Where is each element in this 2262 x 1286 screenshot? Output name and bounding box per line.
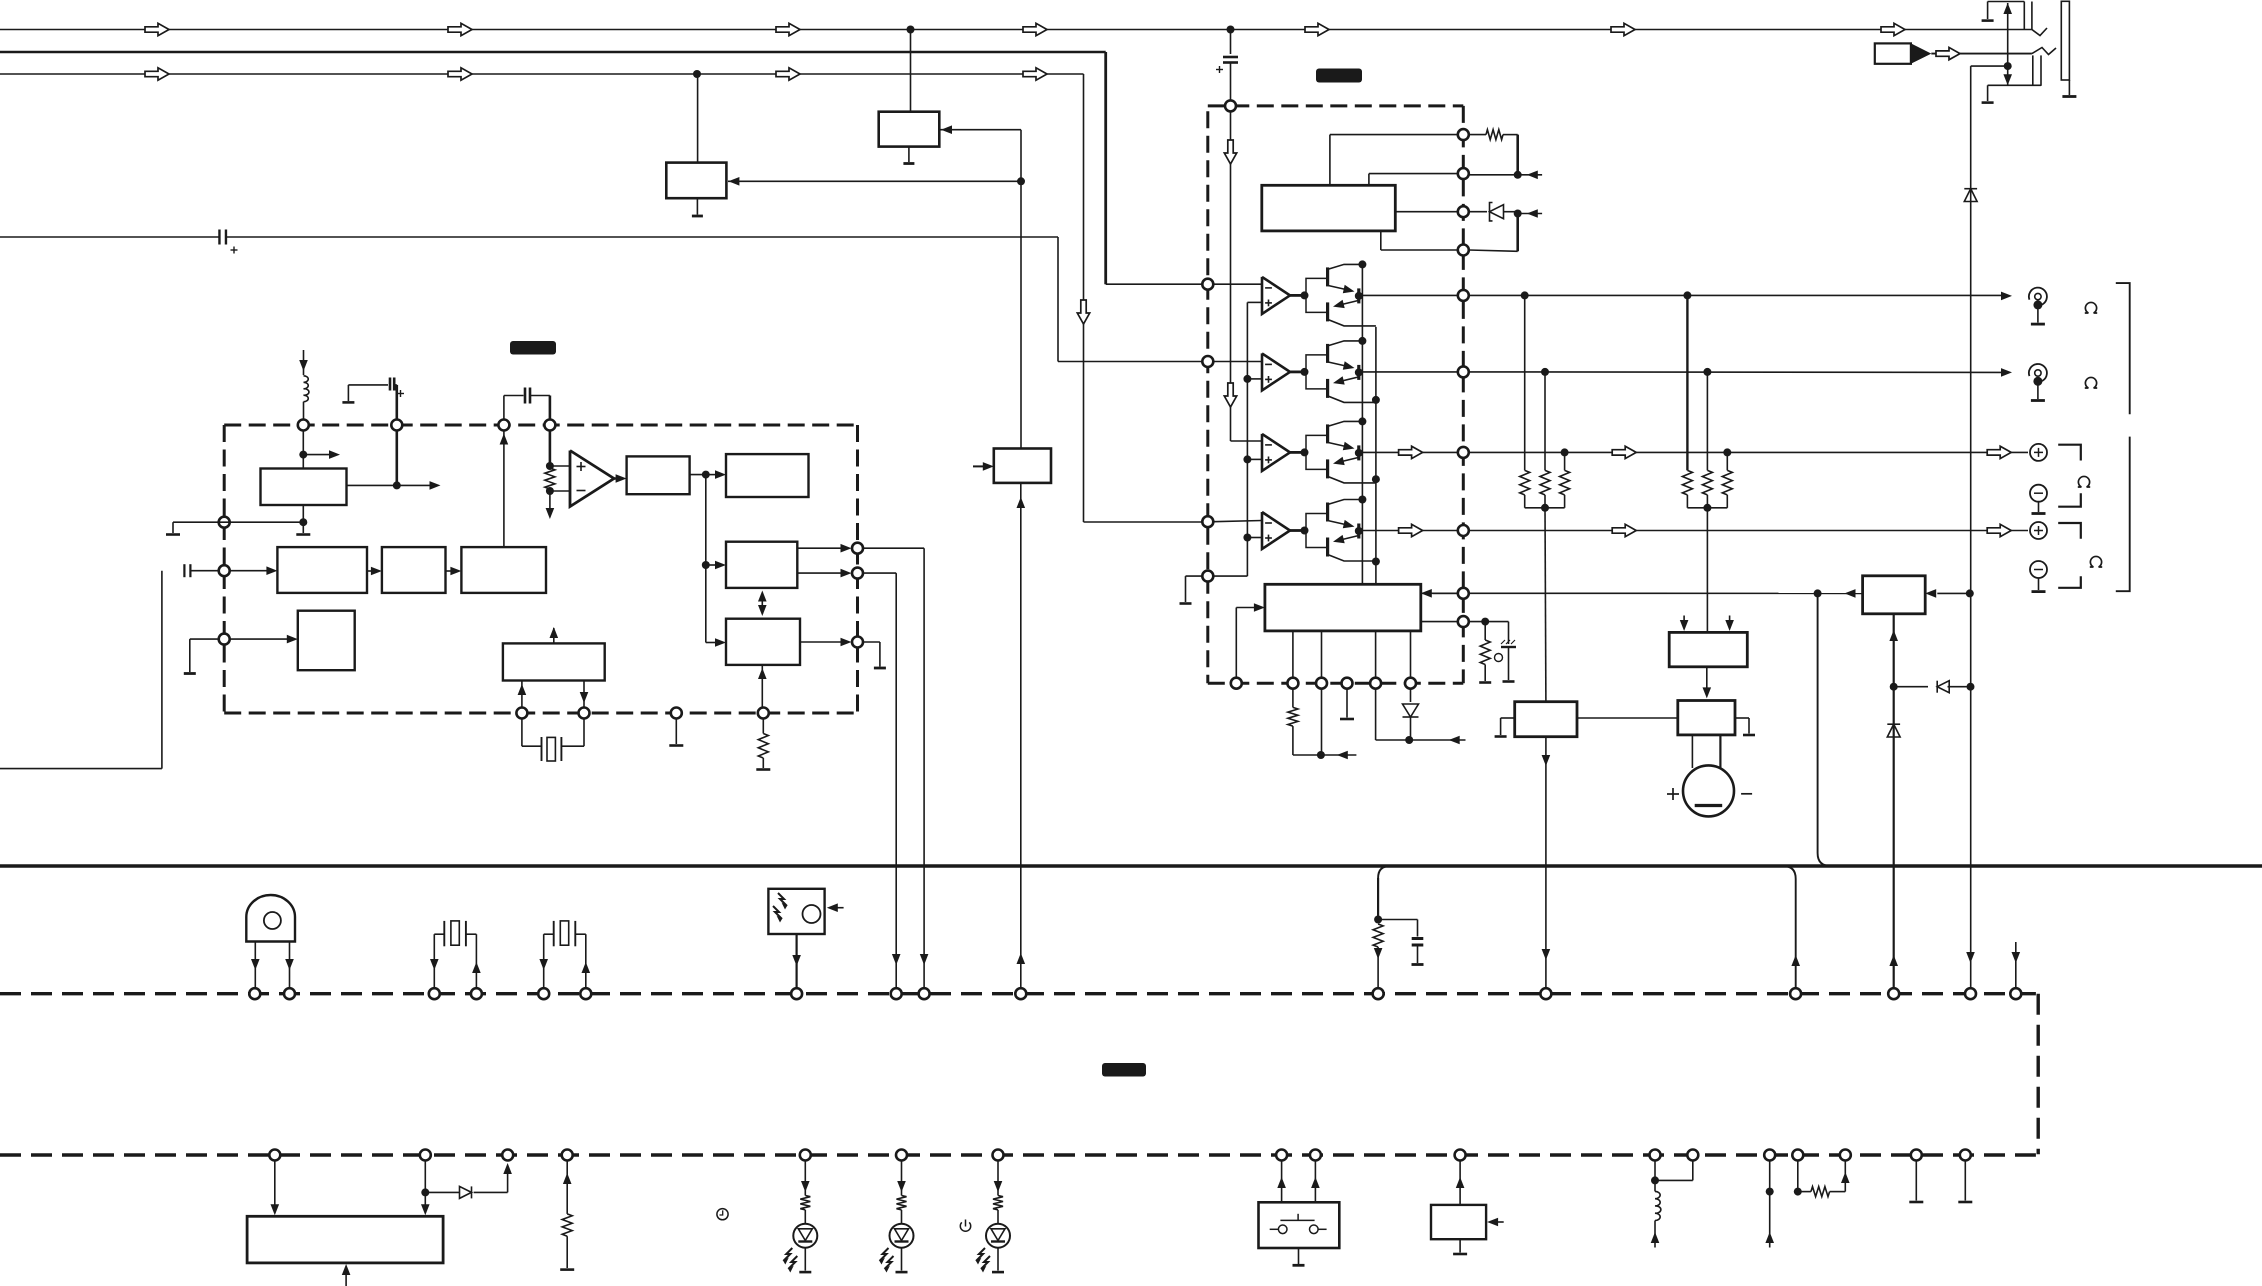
ground at charge box right [1735,717,1749,719]
jack sleeve [2061,1,2069,80]
LED at x=998 [997,1161,999,1196]
wire RG1 to power box [1544,508,1547,702]
wires tuner pins 7-8 down to bus1 [863,547,924,549]
signal flow arrows on L1 [145,23,169,35]
divider rail branch down to bus2 [1783,866,1796,988]
box amp pre-driver [1262,185,1396,231]
RCA jack at y=373 [2029,364,2047,382]
power bus2 dashed [0,1153,2036,1156]
wire regulator to power bus1 [1020,483,1022,988]
ground pin tuner bottom [675,719,677,745]
wire protection down to bus1 [1893,614,1895,988]
amp pins right border [1458,129,1469,140]
power stage rails [1361,265,1363,585]
jack tip contact notch [2032,28,2047,36]
wire L1 node down to amp IC supply pin [1230,30,1232,55]
node feeding discriminator arrow [1017,177,1025,185]
bus2 junction pins [269,1150,280,1161]
box display unit [247,1216,443,1263]
resistor R2t tuner bottom [762,719,764,734]
jack ring contact notch [2032,48,2056,55]
flow arrow down on L3 drop [1077,300,1089,324]
wire arrow into discriminator [728,180,1021,182]
wire bias box to mute pin [1433,592,1458,594]
bracket line-out group [2116,283,2130,414]
dome leads to bus1 [254,942,256,989]
switch leads to bus2 [1281,1161,1283,1203]
ground below discriminator [696,198,698,214]
bus1 junction pins [249,988,260,999]
wire level det to stereo decoder [690,474,706,476]
speaker terminal + at y=452.4 [2030,444,2047,461]
tuner pins bottom border [516,708,527,719]
box AM detector [879,112,940,147]
diode D-disp [425,1191,459,1193]
wire mute line into protection [1469,592,1863,594]
stub arrow out right [397,484,431,486]
box tuner IF amp [461,547,546,593]
op-amp stage at y=295.4 [1262,277,1290,314]
ground left of pin7L [190,638,219,640]
speaker terminal + at y=530.5 [2030,522,2047,539]
resistor R2a below amp [1292,689,1294,708]
timer symbol [717,1209,728,1220]
box tuner mixer [277,547,367,593]
capacitor C-snub [1378,919,1417,921]
jack plunger with arrows [2007,3,2009,85]
crystal X1t below tuner [521,719,523,747]
zener D2a below amp [1410,689,1412,702]
capacitor C2t bridge over pins 3-4 [503,396,505,420]
wire L1 top signal line [0,29,2032,31]
box aux key unit [1431,1205,1486,1239]
op-amp stage at y=371.9 [1262,353,1290,390]
transistor pair Q at y=371.9 [1326,344,1329,363]
LED at x=805.3 [804,1161,806,1196]
wire detect node into protection right [1937,592,1970,594]
wire L2 second line to amp inverting input [0,51,1106,53]
output line stage y=452.4 [1355,449,1363,457]
resistor network bottom right [1769,1161,1771,1248]
power bus1 dashed [0,992,2036,995]
capacitor C-L4 polarized [218,230,220,245]
arrows control logic outputs to pins [797,547,843,549]
stub arrow osc up [553,628,555,643]
wire L3 vertical drop [1083,74,1085,522]
arrow port box output to pin [800,641,843,643]
speaker terminal - at y=493.2 [2030,485,2047,502]
amp inverting input wires from pins [1213,283,1262,285]
output line stage y=295.4 [1355,292,1363,300]
bus1 to bus2 dashed link [2036,994,2039,1155]
black label bar tuner IC [510,341,556,355]
tuner pins top border [298,420,309,431]
switch ground [1298,1248,1300,1264]
IR receiver module [768,889,824,934]
bracket speaker R [2058,523,2081,539]
impedance labels [2085,302,2097,313]
stub arrows into DC-DC top [1683,616,1685,624]
amp pins left border [1202,279,1213,290]
DC plug P1 [1875,43,1911,63]
node detect to protection box [1966,589,1974,597]
wire bus feed up into port box [761,665,763,708]
wire amp supply pin down to opamp3 input [1230,111,1232,441]
arrow opamp out to level box [614,477,618,479]
wire L3 third line with arrows [0,73,1084,75]
switch contacts [1278,1225,1287,1234]
node on L3 feeding discriminator box [693,70,701,78]
amp pins bottom border [1231,678,1242,689]
arrow IF filter to IF amp [446,570,454,572]
wire RG2 down to DC-DC box [1706,508,1708,633]
wire jack detect line down right column [1971,65,2008,67]
inductor L-ant bottom [1654,1161,1656,1192]
op-amp U2t comparator [550,465,570,467]
op-amp stage at y=452.4 [1262,434,1290,471]
resistor R1a feedback [1469,134,1486,136]
zener D1a standby [1469,211,1487,213]
resistor R-key ladder [566,1161,568,1214]
wire L5 bottom-left line to tuner pin [0,768,162,770]
tuner pins right border [852,543,863,554]
signal flow arrows on L3 [145,68,169,80]
box DC-DC converter [1669,632,1747,666]
box power key switch [1259,1202,1340,1248]
input stub arrow into regulator [973,465,983,467]
box tuner port interface [726,619,800,665]
wire output1 to RCA L [1469,294,2002,296]
battery B1 [1691,735,1693,768]
diode D-jack on detect line [1964,189,1977,202]
wire pin6 into mixer [230,570,269,572]
jack lower contact spring [2032,55,2034,85]
arrow into display bottom [345,1271,347,1286]
box battery charge [1678,701,1735,735]
resistor group RG1 feedback divider [1524,295,1526,470]
vibration sensor dome [246,895,295,941]
ground below AM detector box [908,147,910,162]
transistor pair Q at y=295.4 [1326,267,1329,286]
wires osc to crystal pins [521,681,523,708]
wire output3 speaker L+ [1469,451,2028,453]
node on L1 feeding amp supply [1227,26,1235,34]
wire pin4 loop [1381,249,1458,251]
non-inverting rail inside amp [1246,302,1248,576]
diode D-detect horizontal [1894,686,1928,688]
amp pin top [1225,100,1236,111]
mute feed line below amp [1375,689,1377,740]
wire bus2 diode branch [424,1161,426,1208]
arrow pin7L into PLL [230,638,289,640]
tuner IC U1 dashed border [224,424,857,427]
jack J1 tip spring and ground [1987,2,1989,20]
wire AGC box to pin2 node [347,484,397,486]
output line stage y=530.5 [1355,527,1363,535]
wire pin1 feedback to pre-driver [1330,134,1458,136]
aux key ground [1459,1239,1461,1252]
ground pin below amp [1346,689,1348,718]
bias box bottom wires [1292,631,1294,678]
divider rail RC branch [1378,866,1390,878]
box tuner control logic [726,542,797,588]
stub arrow into bus1 right [2015,942,2017,988]
crystal at x=434.3 [433,934,435,988]
box discriminator [666,163,726,199]
LED at x=901.5 [901,1161,903,1196]
node detect diode branch [1967,683,1975,691]
box protection detector [1863,576,1926,614]
box system regulator [994,449,1051,483]
diode D-chg on protection line [1887,724,1900,737]
wire plug to jack ring [1931,53,2032,55]
stub arrow AGC out [303,454,331,456]
amplifier IC U3 dashed border [1208,104,1464,107]
tuner pins left border [219,517,230,528]
wire mute branch to divider rail [1818,593,1831,866]
wire L4 mid line with electrolytic cap [0,236,219,238]
wire pin5 bias [173,521,303,523]
arrow into IR receiver [835,907,844,909]
wire power box down to bus1 [1545,737,1547,988]
wire from L3 down to discriminator [697,74,699,163]
inductor L1t antenna coil [303,350,305,375]
bracket speaker L [2058,445,2081,461]
transistor pair Q at y=530.5 [1326,503,1329,522]
black label bar amp IC [1316,69,1362,83]
resistor R1t on opamp input [549,431,552,467]
speaker terminal - at y=569.5 [2030,561,2047,578]
resistor R3a at bias pin [1469,621,1509,623]
wire pin to ground right of tuner [863,641,880,643]
wire bottom pin up into bias box [1235,608,1237,678]
IR receiver lead to bus1 [795,934,797,988]
capacitor C-supply polarized [1223,56,1238,59]
wire pin2 mute input [1369,173,1458,175]
arrow into aux key right [1495,1221,1504,1223]
box tuner AGC [261,469,347,506]
wire pin1 into AGC box [302,431,304,469]
wire down to control interface [705,475,707,565]
capacitor C-L5 [183,564,185,577]
black label bar main board [1102,1063,1146,1077]
wire IF amp top to pin3 [503,431,505,548]
wire output4 speaker R+ [1469,530,2028,532]
node on L1 feeding AM box [907,26,915,34]
op-amp stage at y=530.5 [1262,512,1290,549]
RCA jack at y=296.6 [2029,288,2047,306]
arrow DC-DC to charge box [1706,667,1708,690]
ground at power box left [1501,717,1515,719]
ground stubs bus2 right [1915,1161,1917,1201]
output line stage y=371.9 [1355,368,1363,376]
resistor R-snub [1373,924,1383,947]
wire power box to charge box [1577,717,1678,719]
box tuner stereo decoder [726,454,809,497]
crystal at x=543.7 [543,934,545,988]
transistor pair Q at y=452.4 [1326,424,1329,443]
wire bus2 to display [274,1161,276,1208]
capacitor C1t electrolytic with ground [342,401,354,404]
wire bias box lower to pin [1421,621,1458,623]
ground at amp non-inverting pin [1186,575,1203,577]
box tuner IF filter [382,547,446,593]
double arrow between logic and port box [761,593,763,615]
box tuner crystal osc [503,643,605,680]
wire from AM box to regulator line [939,129,1021,131]
chassis divider rail [0,864,2262,867]
power symbol [960,1222,970,1231]
bracket speaker group [2116,437,2130,592]
box tuner level detector [627,456,690,494]
wire pin3 to pre-driver [1395,211,1458,213]
box amp bias/protection [1265,584,1421,631]
resistor group RG2 feedback divider [1686,295,1688,470]
arrow mixer to IF filter [367,570,374,572]
wire AGC bottom to ground [302,505,304,533]
trimmer cap CT1 [1508,622,1510,644]
box tuner PLL [298,611,355,671]
wire output2 to RCA R [1469,371,2002,374]
box system power switch [1515,702,1577,737]
